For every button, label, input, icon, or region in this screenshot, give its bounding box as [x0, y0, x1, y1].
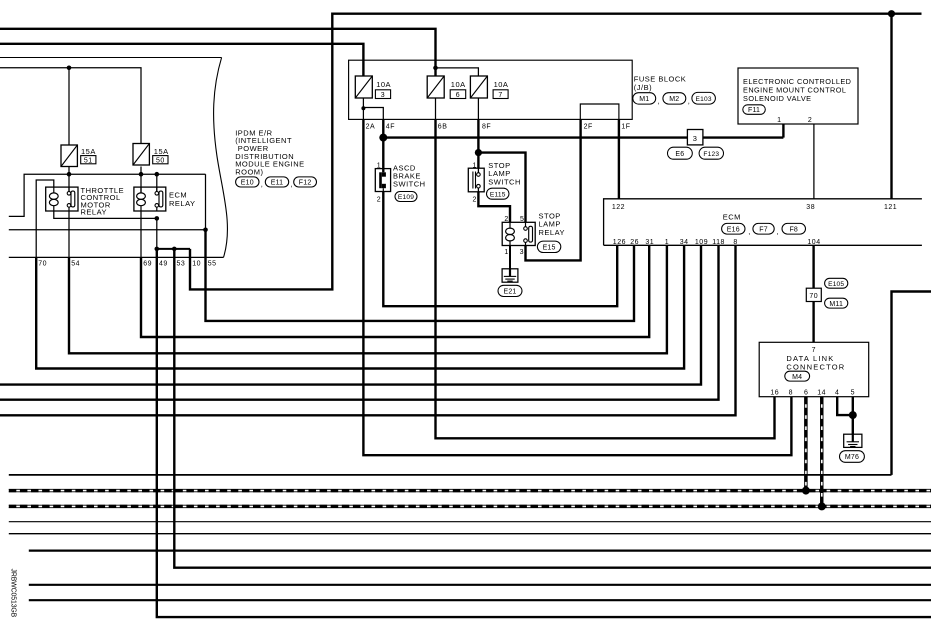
svg-text:70: 70 — [809, 293, 818, 300]
svg-text:54: 54 — [71, 261, 80, 268]
svg-text:1: 1 — [777, 117, 781, 124]
svg-text:2A: 2A — [366, 124, 376, 131]
svg-text:2: 2 — [377, 197, 381, 204]
svg-text:2: 2 — [472, 197, 476, 204]
svg-text:8: 8 — [789, 389, 793, 396]
svg-text:JRBWC0513GB: JRBWC0513GB — [10, 569, 17, 618]
svg-text:M4: M4 — [792, 374, 802, 381]
svg-text:121: 121 — [884, 204, 897, 211]
svg-text:1: 1 — [504, 249, 508, 256]
svg-text:1: 1 — [472, 162, 476, 169]
svg-text:51: 51 — [84, 157, 93, 164]
svg-text:SOLENOID VALVE: SOLENOID VALVE — [743, 94, 811, 103]
svg-text:118: 118 — [712, 239, 725, 246]
svg-text:3: 3 — [520, 249, 524, 256]
svg-text:(J/B): (J/B) — [634, 83, 652, 92]
svg-text:,: , — [688, 96, 691, 105]
svg-text:15A: 15A — [81, 147, 96, 156]
svg-text:5: 5 — [851, 389, 855, 396]
svg-text:4F: 4F — [386, 124, 395, 131]
svg-text:55: 55 — [208, 261, 217, 268]
svg-text:M76: M76 — [845, 454, 859, 461]
svg-text:M2: M2 — [669, 96, 679, 103]
svg-text:38: 38 — [806, 204, 815, 211]
svg-text:1: 1 — [665, 239, 669, 246]
svg-text:RELAY: RELAY — [169, 199, 196, 208]
svg-text:69: 69 — [143, 261, 152, 268]
svg-text:,: , — [291, 180, 294, 189]
svg-text:14: 14 — [817, 389, 826, 396]
svg-text:8: 8 — [733, 239, 737, 246]
svg-text:,: , — [777, 227, 780, 236]
svg-text:E115: E115 — [490, 191, 506, 198]
svg-text:49: 49 — [159, 261, 168, 268]
svg-text:104: 104 — [807, 239, 820, 246]
svg-text:SWITCH: SWITCH — [488, 178, 521, 187]
svg-text:50: 50 — [156, 157, 165, 164]
svg-text:F123: F123 — [703, 151, 719, 158]
svg-text:RELAY: RELAY — [81, 208, 108, 217]
svg-text:10A: 10A — [451, 80, 466, 89]
svg-text:10: 10 — [192, 261, 201, 268]
svg-text:SWITCH: SWITCH — [393, 179, 426, 188]
svg-text:M11: M11 — [829, 301, 843, 308]
svg-text:2F: 2F — [584, 124, 593, 131]
svg-text:E21: E21 — [503, 289, 516, 296]
svg-text:E15: E15 — [543, 244, 556, 251]
svg-text:6: 6 — [804, 389, 808, 396]
svg-text:E105: E105 — [828, 281, 844, 288]
svg-text:5: 5 — [520, 216, 524, 223]
svg-text:1: 1 — [377, 162, 381, 169]
svg-text:2: 2 — [808, 117, 812, 124]
svg-text:10A: 10A — [376, 80, 391, 89]
svg-text:8F: 8F — [482, 124, 491, 131]
svg-text:7: 7 — [812, 347, 816, 354]
svg-text:F11: F11 — [748, 107, 760, 114]
svg-text:,: , — [261, 180, 264, 189]
svg-text:E11: E11 — [271, 180, 284, 187]
svg-text:6B: 6B — [438, 124, 448, 131]
svg-text:16: 16 — [770, 389, 779, 396]
svg-text:2: 2 — [504, 216, 508, 223]
svg-text:7: 7 — [498, 92, 502, 99]
svg-text:RELAY: RELAY — [539, 228, 566, 237]
svg-text:10A: 10A — [494, 80, 509, 89]
svg-text:1F: 1F — [621, 124, 630, 131]
svg-text:126: 126 — [613, 239, 626, 246]
svg-text:M1: M1 — [639, 96, 649, 103]
svg-text:3: 3 — [381, 92, 385, 99]
svg-text:34: 34 — [680, 239, 689, 246]
svg-text:31: 31 — [645, 239, 654, 246]
svg-text:,: , — [658, 96, 661, 105]
svg-text:E109: E109 — [398, 194, 414, 201]
svg-text:109: 109 — [695, 239, 708, 246]
svg-text:26: 26 — [630, 239, 639, 246]
svg-text:53: 53 — [177, 261, 186, 268]
svg-text:,: , — [748, 227, 751, 236]
svg-text:E6: E6 — [675, 151, 684, 158]
svg-text:3: 3 — [693, 134, 698, 143]
svg-text:E16: E16 — [727, 226, 740, 233]
svg-text:70: 70 — [38, 261, 47, 268]
svg-text:ROOM): ROOM) — [235, 168, 263, 177]
svg-text:F12: F12 — [299, 180, 312, 187]
svg-text:F7: F7 — [759, 226, 768, 233]
svg-text:122: 122 — [612, 204, 625, 211]
svg-text:6: 6 — [456, 92, 460, 99]
svg-text:ECM: ECM — [723, 213, 741, 222]
svg-text:15A: 15A — [154, 147, 169, 156]
svg-text:4: 4 — [835, 389, 839, 396]
svg-text:F8: F8 — [789, 226, 798, 233]
svg-text:E103: E103 — [696, 96, 712, 103]
svg-text:E10: E10 — [241, 180, 254, 187]
svg-text:CONNECTOR: CONNECTOR — [786, 363, 845, 372]
